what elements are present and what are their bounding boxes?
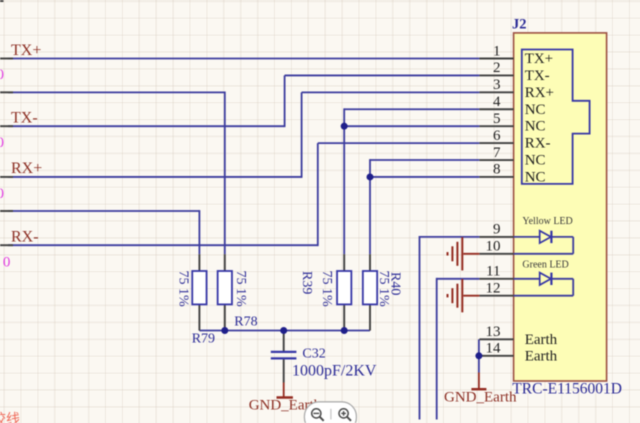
svg-text:TX+: TX+ <box>525 51 553 67</box>
svg-text:RX+: RX+ <box>11 160 42 177</box>
svg-text:11: 11 <box>486 264 500 280</box>
svg-text:75 1%: 75 1% <box>233 271 248 308</box>
svg-text:75 1%: 75 1% <box>176 271 191 308</box>
svg-text:5: 5 <box>493 111 501 127</box>
svg-text:J2: J2 <box>512 17 527 33</box>
svg-text:6: 6 <box>493 128 501 144</box>
svg-text:TRC-E1156001D: TRC-E1156001D <box>512 380 622 397</box>
svg-text:双绞线: 双绞线 <box>0 411 20 423</box>
svg-text:2: 2 <box>493 60 501 76</box>
svg-text:RX+: RX+ <box>525 85 554 101</box>
svg-text:R40: R40 <box>388 272 403 295</box>
svg-text:R39: R39 <box>299 271 314 294</box>
svg-text:RX-: RX- <box>11 229 39 246</box>
svg-text:R78: R78 <box>234 314 257 329</box>
svg-text:1: 1 <box>493 43 501 59</box>
svg-text:0: 0 <box>0 135 4 151</box>
svg-text:4: 4 <box>493 94 501 110</box>
svg-text:3: 3 <box>493 77 501 93</box>
svg-text:GND_Earth: GND_Earth <box>444 390 517 406</box>
svg-text:NC: NC <box>525 153 546 169</box>
svg-text:10: 10 <box>486 239 501 255</box>
svg-text:7: 7 <box>493 145 501 161</box>
svg-text:NC: NC <box>525 119 546 135</box>
svg-text:Yellow LED: Yellow LED <box>522 216 572 227</box>
svg-text:R79: R79 <box>192 332 215 347</box>
svg-text:13: 13 <box>486 324 501 340</box>
svg-text:C32: C32 <box>302 347 325 362</box>
svg-text:9: 9 <box>493 222 501 238</box>
svg-text:0: 0 <box>3 255 10 271</box>
svg-text:Earth: Earth <box>525 348 558 364</box>
svg-text:12: 12 <box>486 281 501 297</box>
svg-text:75 1%: 75 1% <box>319 271 334 308</box>
svg-text:0: 0 <box>0 186 4 202</box>
svg-text:TX-: TX- <box>525 68 550 84</box>
svg-text:8: 8 <box>493 162 501 178</box>
svg-text:Earth: Earth <box>525 332 558 348</box>
svg-text:NC: NC <box>525 169 546 185</box>
svg-text:14: 14 <box>486 341 502 357</box>
svg-text:TX+: TX+ <box>11 42 41 59</box>
svg-text:TX-: TX- <box>11 109 38 126</box>
svg-text:NC: NC <box>525 102 546 118</box>
svg-text:0: 0 <box>0 67 4 83</box>
svg-text:1000pF/2KV: 1000pF/2KV <box>292 362 377 379</box>
svg-text:Green LED: Green LED <box>522 259 568 270</box>
svg-text:RX-: RX- <box>525 136 551 152</box>
